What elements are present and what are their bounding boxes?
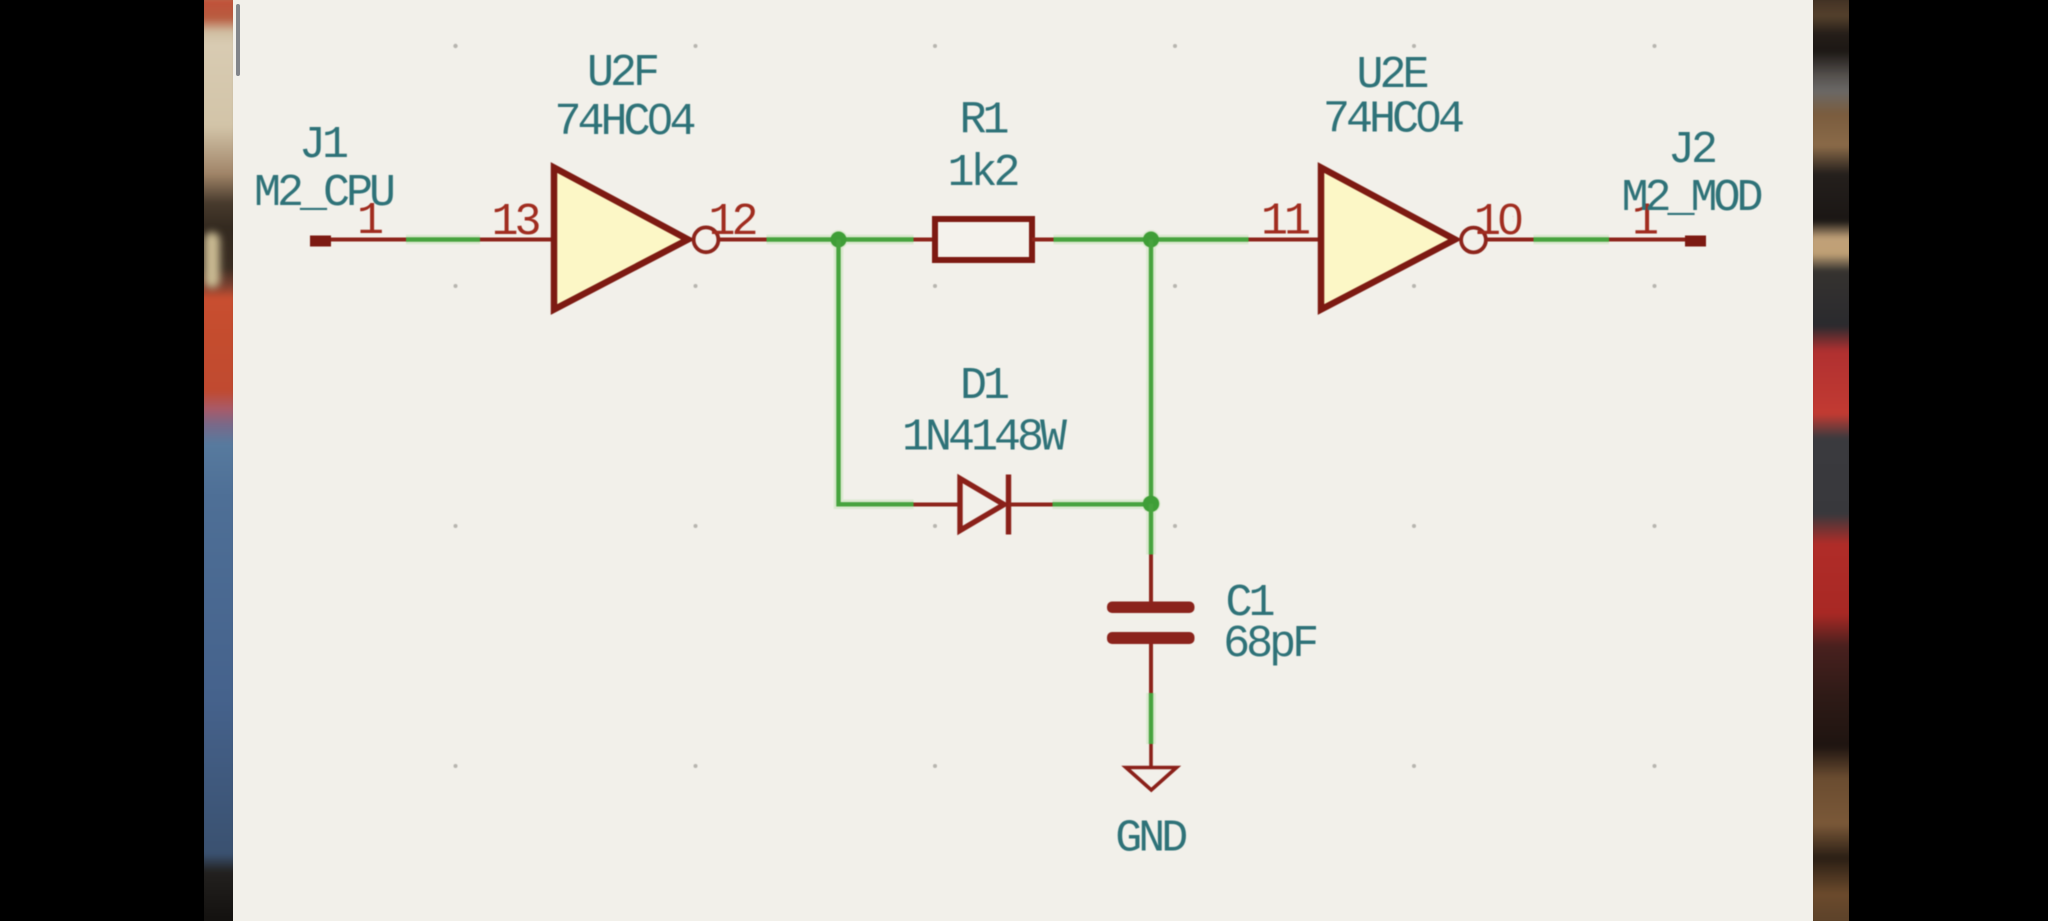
- pin number 10: [1474, 197, 1522, 248]
- wire glow halo: [406, 230, 1609, 744]
- svg-text:12: 12: [708, 197, 755, 248]
- pin number 12: [708, 197, 755, 248]
- U2F pin 12 line: [719, 238, 767, 242]
- wire node B down: [1149, 240, 1153, 504]
- diode D1: [960, 475, 1009, 535]
- svg-text:1k2: 1k2: [947, 148, 1017, 199]
- svg-text:74HC04: 74HC04: [1323, 95, 1463, 146]
- svg-text:U2E: U2E: [1356, 50, 1427, 101]
- capacitor C1: [1107, 602, 1195, 645]
- wire U2F to R1: [767, 237, 914, 241]
- svg-text:74HC04: 74HC04: [554, 97, 694, 148]
- pin number 1 of J1: [357, 196, 382, 247]
- node A junction: [831, 232, 847, 248]
- label U2F reference: [587, 48, 657, 99]
- label D1 reference: [960, 361, 1008, 412]
- svg-text:J1: J1: [299, 120, 347, 171]
- R1 pin right: [1032, 238, 1054, 242]
- label J1 value M2_CPU: [254, 168, 393, 219]
- U2E pin 10 line: [1486, 238, 1534, 242]
- connector J1 pin bar: [310, 236, 331, 247]
- svg-text:M2_MOD: M2_MOD: [1621, 173, 1761, 224]
- svg-text:1: 1: [357, 196, 382, 247]
- left photo strip: [204, 0, 233, 921]
- U2F output bubble: [694, 227, 719, 252]
- pin number 11: [1261, 197, 1309, 248]
- U2E pin 11 line: [1249, 238, 1322, 242]
- label J2 reference: [1668, 125, 1715, 176]
- wire node A down: [839, 240, 914, 505]
- svg-text:68pF: 68pF: [1223, 619, 1316, 670]
- label U2F value 74HC04: [554, 97, 694, 148]
- schematic background panel: [233, 0, 1813, 921]
- op-amp U2E inverter triangle: [1321, 168, 1455, 310]
- label J1 reference: [299, 120, 347, 171]
- wire J1 to U2F: [406, 237, 480, 241]
- svg-text:J2: J2: [1668, 125, 1715, 176]
- C1 pin bottom: [1149, 644, 1153, 693]
- D1 cathode pin line: [1009, 503, 1053, 507]
- wire U2E to J2: [1534, 237, 1610, 241]
- ground: [1126, 744, 1177, 790]
- label R1 value 1k2: [947, 148, 1017, 199]
- label C1 reference: [1225, 578, 1273, 629]
- label GND net: [1115, 814, 1186, 865]
- pin number 1 of J2: [1632, 196, 1657, 247]
- svg-text:13: 13: [491, 197, 539, 248]
- svg-text:GND: GND: [1115, 814, 1186, 865]
- C1 pin top: [1149, 555, 1153, 602]
- svg-text:11: 11: [1261, 197, 1309, 248]
- label J2 value M2_MOD: [1621, 173, 1761, 224]
- J1 pin 1 line: [331, 238, 406, 242]
- svg-text:1N4148W: 1N4148W: [902, 413, 1067, 464]
- label U2E value 74HC04: [1323, 95, 1463, 146]
- node C junction: [1143, 496, 1159, 512]
- wire C1 to GND: [1149, 693, 1153, 744]
- R1 pin left: [914, 238, 936, 242]
- label U2E reference: [1356, 50, 1427, 101]
- U2E output bubble: [1461, 228, 1486, 253]
- scrollbar indicator: [236, 4, 240, 76]
- connector J2 pin bar: [1685, 236, 1706, 247]
- svg-text:R1: R1: [959, 96, 1007, 147]
- label C1 value 68pF: [1223, 619, 1316, 670]
- right photo strip: [1813, 0, 1849, 921]
- label D1 value 1N4148W: [902, 413, 1067, 464]
- op-amp U2F inverter triangle: [554, 168, 688, 310]
- pin number 13: [491, 197, 539, 248]
- wire D1 to node C: [1053, 502, 1152, 506]
- label R1 reference: [959, 96, 1007, 147]
- resistor R1: [935, 219, 1032, 260]
- wire R1 to U2E: [1054, 237, 1249, 241]
- J2 pin 1 line: [1609, 238, 1685, 242]
- U2F pin 13 line: [480, 238, 554, 242]
- D1 anode pin line: [914, 503, 961, 507]
- svg-text:D1: D1: [960, 361, 1008, 412]
- svg-text:U2F: U2F: [587, 48, 657, 99]
- svg-text:10: 10: [1474, 197, 1522, 248]
- zero-glyph dot masks: [656, 111, 1514, 225]
- wire node C to C1: [1149, 504, 1153, 555]
- node B junction: [1143, 232, 1159, 248]
